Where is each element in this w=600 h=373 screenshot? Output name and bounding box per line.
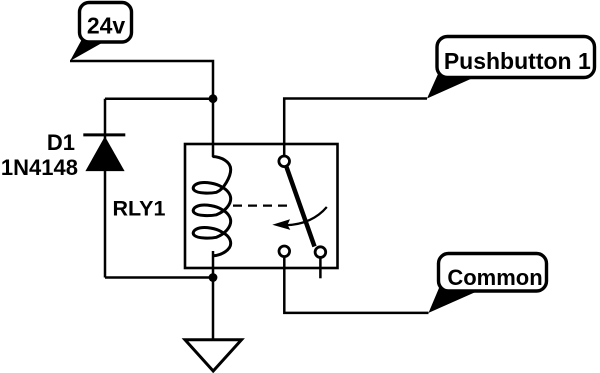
wire diode branch vertical [104,99,107,278]
svg-text:24v: 24v [87,13,126,39]
switch NC bottom contact [315,247,326,258]
node A junction dot [209,94,218,103]
wire NC contact stub [319,257,322,278]
wire node to diode branch [105,97,213,100]
svg-text:D1: D1 [47,130,75,155]
switch arm [287,167,315,247]
ground [185,340,242,371]
wire common contact pin down to Common flag [284,258,428,313]
wire pushbutton to switch common pin [284,99,427,157]
svg-text:RLY1: RLY1 [113,197,166,221]
wire coil bottom to ground [212,251,215,340]
node B junction dot [209,273,218,282]
switch actuation arrow [286,207,327,225]
svg-text:Common: Common [447,265,542,290]
diode D1 [83,133,125,136]
flag Pushbutton 1 bubble [427,74,474,99]
wire bottom from diode branch to ground node [105,276,213,279]
relay RLY1 box [185,144,338,268]
svg-text:1N4148: 1N4148 [1,155,78,180]
relay RLY1 coil [193,157,230,256]
switch top contact [279,156,290,167]
svg-text:Pushbutton 1: Pushbutton 1 [444,48,591,74]
flag 24v bubble [70,40,105,61]
switch common bottom contact [279,246,290,257]
flag Common bubble [429,288,480,313]
wire 24v to top node [70,61,213,157]
relay armature dashed link [233,205,292,207]
